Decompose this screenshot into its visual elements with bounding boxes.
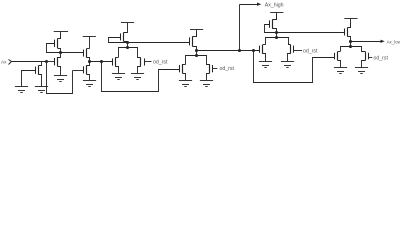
transistor M7b <box>362 52 369 68</box>
ground N3 <box>83 81 96 87</box>
transistor M5b <box>207 64 213 81</box>
label od_rst stage5 <box>220 66 235 72</box>
wire input Ax <box>12 61 47 63</box>
wire M5b gate <box>212 68 217 70</box>
wire stage5 output y51 <box>197 50 240 52</box>
transistor M4a <box>113 57 119 73</box>
wire route R3 <box>254 51 335 83</box>
wire stage5 to rail <box>196 51 198 56</box>
ground M1 source <box>35 87 48 93</box>
node J4 <box>100 60 103 63</box>
node stage7 rail dot <box>349 45 352 48</box>
wire W3 to P5 gate <box>128 42 190 44</box>
transistor M5a <box>180 64 186 81</box>
transistor M7a <box>335 52 341 68</box>
label od_rst stage6 <box>303 48 318 54</box>
transistor P4 <box>121 28 128 43</box>
transistor P5 <box>190 33 197 51</box>
wire M7b gate <box>368 57 372 59</box>
wire riser to Ax_high <box>239 4 241 51</box>
wire N3 gate from R1 <box>73 70 84 72</box>
svg-text:od_rst: od_rst <box>374 56 389 62</box>
wire stage7 rail <box>341 47 366 52</box>
node W3 <box>126 41 129 44</box>
wire y51 to M6a gate <box>240 50 260 52</box>
node stage6 out <box>275 31 278 34</box>
wire stage4 rail <box>119 48 141 58</box>
output port Ax_high <box>240 3 284 9</box>
vdd of P6 <box>270 13 283 20</box>
vdd of P3 <box>83 36 96 48</box>
wire N2 gate to J1 <box>46 61 54 63</box>
wire M6b gate <box>294 50 302 52</box>
node stage6 rail dot <box>275 36 278 39</box>
label od_rst stage4 <box>153 60 168 66</box>
wire route R2 <box>102 62 180 92</box>
node J5 <box>252 49 255 52</box>
transistor P3 <box>84 49 90 62</box>
wire route R1 <box>47 62 73 94</box>
wire W3 to rail <box>127 43 129 48</box>
ground M1 gate <box>15 87 28 93</box>
ground M6b <box>281 62 294 68</box>
ground M5b <box>200 81 213 87</box>
transistor M1 <box>36 62 42 87</box>
svg-text:Ax: Ax <box>1 60 7 65</box>
wire M4b gate <box>144 61 151 63</box>
ground N2 <box>54 76 67 82</box>
transistor M4b <box>138 57 145 73</box>
ground M4b <box>131 74 144 80</box>
ground M7a <box>334 68 347 74</box>
node stage7 out <box>349 40 352 43</box>
node stage4 rail dot <box>126 46 129 49</box>
vdd of P7 <box>344 18 357 27</box>
ground M6a <box>259 62 272 68</box>
svg-text:Ax_low: Ax_low <box>387 40 400 45</box>
vdd of P2 <box>54 32 68 39</box>
wire P2 gate hook to W2 <box>47 44 61 53</box>
svg-text:od_rst: od_rst <box>220 66 235 72</box>
ground M7b <box>355 68 368 74</box>
wire stage6 output y32 <box>277 32 344 34</box>
output port Ax_low <box>351 40 400 45</box>
ground M4a <box>112 74 125 80</box>
node J1 <box>45 60 48 63</box>
node J3 <box>88 60 91 63</box>
node J2 <box>59 51 62 54</box>
vdd of P5 <box>190 30 203 37</box>
transistor P7 <box>345 24 351 42</box>
vdd of P4 <box>121 22 134 28</box>
wire P6 gate hook <box>265 25 277 33</box>
wire stage7 to rail <box>350 41 352 46</box>
node stage5 rail dot <box>195 54 198 57</box>
transistor N2 <box>55 53 61 76</box>
transistor P2 <box>55 34 61 53</box>
wire P4 gate hook <box>109 38 128 43</box>
svg-text:od_rst: od_rst <box>303 48 318 54</box>
wire stage6 to rail <box>276 33 278 38</box>
transistor P6 <box>270 15 277 33</box>
wire W2 stage2 output <box>61 52 83 54</box>
label od_rst stage7 <box>374 56 389 62</box>
transistor M6a <box>260 45 266 62</box>
svg-text:Ax_high: Ax_high <box>265 3 284 9</box>
input port Ax <box>1 60 12 65</box>
wire stage3 output <box>89 61 112 63</box>
node stage5 out <box>195 49 198 52</box>
node Ax_high tap <box>238 49 241 52</box>
svg-text:od_rst: od_rst <box>153 60 168 66</box>
wire stage5 rail <box>186 56 210 65</box>
wire stage6 rail <box>266 38 291 45</box>
transistor M6b <box>288 45 294 62</box>
transistor N3 <box>84 62 90 81</box>
ground M5a <box>179 81 192 87</box>
wire M1 gate <box>22 71 36 87</box>
